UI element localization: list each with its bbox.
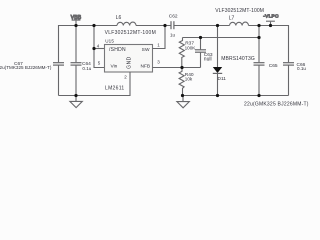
svg-text:MBRS140T3G: MBRS140T3G: [221, 56, 255, 62]
capacitor C65: [254, 26, 265, 96]
pin number 5: [98, 61, 101, 66]
capacitor C66: [283, 63, 294, 96]
label L6: [105, 15, 156, 36]
svg-text:Vin: Vin: [111, 63, 118, 69]
label R40: [185, 72, 194, 82]
pin number 2: [124, 75, 127, 80]
op-amp U15 LM2611 box: [105, 45, 153, 73]
junction C65 ground: [257, 94, 260, 97]
svg-text:VLF302512MT-100M: VLF302512MT-100M: [105, 30, 156, 36]
wire right ground rail: [183, 95, 289, 97]
pin /SHDN: [109, 47, 126, 53]
svg-text:/SHDN: /SHDN: [109, 47, 126, 53]
resistor R40: [179, 68, 184, 96]
pin GND: [126, 56, 132, 69]
junction node line C65 column: [257, 36, 260, 39]
inductor L6: [117, 22, 136, 25]
capacitor C62: [171, 21, 174, 29]
svg-text:null: null: [204, 57, 212, 63]
svg-text:VLF302512MT-100M: VLF302512MT-100M: [215, 8, 264, 14]
junction NFB divider: [180, 66, 183, 69]
svg-text:U15: U15: [105, 39, 114, 44]
svg-text:SW: SW: [142, 47, 150, 53]
label C64: [82, 61, 92, 71]
junction right ground: [181, 94, 184, 97]
capacitor C63: [195, 38, 206, 68]
wire SW pin to top rail: [153, 26, 166, 49]
label U15: [105, 39, 114, 44]
pin SW: [142, 47, 150, 53]
pin number 4: [97, 44, 100, 49]
svg-text:D11: D11: [218, 76, 227, 82]
svg-text:100K: 100K: [185, 46, 197, 51]
junction pin 4: [92, 47, 95, 50]
ground right: [177, 96, 189, 108]
label LM2611: [105, 85, 125, 91]
junction C63 node: [199, 36, 202, 39]
ground left: [70, 96, 82, 108]
svg-text:22u(GMK325 BJ226MM-T): 22u(GMK325 BJ226MM-T): [244, 102, 309, 108]
junction left ground: [74, 94, 77, 97]
pin Vin: [111, 63, 118, 69]
label C63: [204, 52, 213, 63]
svg-text:10k: 10k: [185, 76, 193, 81]
label R37: [185, 41, 197, 51]
label L7: [215, 8, 264, 21]
svg-text:-VLPC: -VLPC: [263, 14, 279, 20]
label C66: [297, 62, 307, 71]
label C62: [169, 13, 178, 37]
wire NFB pin to divider: [153, 67, 201, 69]
wire top rail: [59, 26, 289, 63]
inductor L7: [230, 22, 249, 25]
svg-text:22u(TMK325 BJ226MM-T): 22u(TMK325 BJ226MM-T): [0, 65, 52, 70]
capacitor C64: [71, 26, 82, 96]
svg-text:GND: GND: [126, 56, 132, 69]
capacitor C67: [53, 63, 64, 96]
junction SW riser: [163, 24, 166, 27]
node -VLPC: [266, 21, 275, 25]
svg-text:C62: C62: [169, 13, 178, 19]
label D11: [218, 56, 255, 82]
pin number 3: [157, 60, 160, 65]
svg-text:L6: L6: [116, 15, 122, 21]
svg-text:NFB: NFB: [141, 63, 151, 69]
label C67: [0, 61, 52, 70]
junction VBB rail: [74, 24, 77, 27]
junction diode top: [216, 24, 219, 27]
junction VLPC stub: [269, 24, 272, 27]
wire left ground rail: [59, 72, 131, 96]
wire riser to pins 4 and 5: [94, 26, 105, 68]
node VBB: [72, 20, 81, 25]
junction C65 top: [257, 24, 260, 27]
svg-text:C65: C65: [269, 63, 278, 69]
svg-text:0.1u: 0.1u: [82, 66, 91, 71]
pin number 1: [157, 43, 160, 48]
resistor R37: [179, 38, 184, 68]
wire node line: [183, 37, 260, 39]
pin NFB: [141, 63, 151, 69]
svg-text:L7: L7: [229, 15, 235, 21]
svg-text:LM2611: LM2611: [105, 85, 125, 91]
diode D11: [213, 26, 222, 96]
svg-text:VBB: VBB: [71, 15, 82, 21]
svg-text:0.1u: 0.1u: [297, 66, 306, 71]
junction pins riser: [92, 24, 95, 27]
label C65: [244, 63, 309, 107]
junction diode ground: [216, 94, 219, 97]
svg-text:1u: 1u: [170, 33, 176, 38]
